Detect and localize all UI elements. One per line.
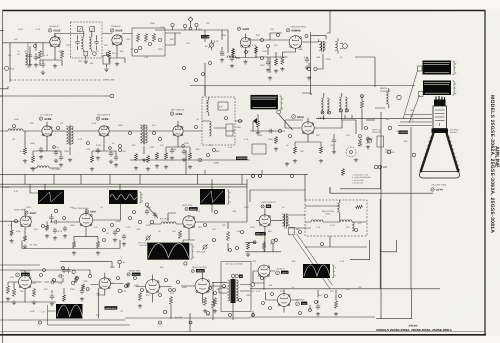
svg-text:6SN7GT: 6SN7GT [22,273,30,276]
svg-text:100K: 100K [298,48,303,51]
wire damper bottom [125,313,250,332]
T1 ground leads [84,52,86,59]
bus tick marks [25,170,262,184]
row1 bottom rail [190,85,415,87]
wire vert link [209,179,247,251]
svg-text:AGC: AGC [260,64,265,67]
svg-text:22K: 22K [256,34,260,37]
bracket W5 [139,192,142,203]
svg-text:5V4G: 5V4G [302,302,307,305]
vert lin chip [255,232,266,235]
svg-text:8.2K: 8.2K [14,190,19,193]
component value annotations [8,22,408,317]
terminals IF strip [87,142,90,145]
volume pot [209,43,213,47]
svg-text:B+ 140V: B+ 140V [52,168,61,171]
video det box [252,144,266,154]
oscillogram photo W2 [423,81,451,96]
svg-text:FOCUS: FOCUS [385,149,393,152]
svg-text:470K: 470K [18,28,23,31]
oscillogram photo W8 [56,304,83,319]
svg-text:VERT LIN: VERT LIN [256,233,265,236]
svg-text:YOKE: YOKE [325,213,331,216]
svg-text:PICTURE TUBE: PICTURE TUBE [432,184,447,187]
terminals damper [262,302,265,305]
grounds row4 left [6,297,10,301]
row1 V3 extra caps [230,56,234,62]
svg-text:270K: 270K [96,144,101,147]
svg-text:VERT OUTPUT: VERT OUTPUT [262,201,277,204]
V3 network wires [233,34,257,58]
svg-text:68K: 68K [196,148,200,151]
tube V8 audio amp [302,122,314,134]
svg-text:150K: 150K [182,286,187,289]
dashed datum line [10,79,101,81]
V5 cathode network [25,122,61,155]
flag test point [253,118,257,124]
resistor R15 [358,138,361,147]
terminals sync top [252,175,255,178]
takeoff box trimmer [226,124,233,136]
left vertical trunk [0,95,3,97]
svg-text:6AU6: 6AU6 [54,30,61,33]
oscillogram photo W9 [303,264,330,278]
B plus terminal V4 [314,67,317,70]
svg-text:270K: 270K [146,224,151,227]
tube V11 vert osc [183,216,195,228]
terminal cluster row1 [138,46,141,49]
wire long y120 to width [366,119,375,121]
tube V3 6AV6 detector [241,38,251,48]
IF transformer T1 dashed can [71,22,103,58]
tube V1 6AU6 sound IF [50,37,60,47]
svg-text:4.7K: 4.7K [256,290,261,293]
svg-text:150K: 150K [26,206,31,209]
svg-text:8.2K: 8.2K [20,150,25,153]
svg-text:470K: 470K [16,230,21,233]
svg-text:1.5K: 1.5K [60,266,65,269]
svg-text:2.2K: 2.2K [214,40,219,43]
CRT faceplate [420,172,460,179]
svg-text:22K: 22K [330,290,334,293]
svg-text:AIRLINE: AIRLINE [408,324,418,327]
row2 video det parts [256,120,259,128]
row3 sync mid extra [113,230,117,236]
horizontal discriminator caps [62,267,66,273]
takeoff wires [184,121,243,131]
bracket W1 [453,61,456,75]
wire extra verticals [45,30,330,200]
svg-text:150K: 150K [262,50,267,53]
dashed circle speaker jack [346,147,356,157]
diagonal leads to photos W1 [403,71,418,120]
svg-text:6CB6: 6CB6 [102,118,109,121]
resistor R30 [6,285,9,294]
wire y290 long [250,288,440,290]
grounds video right [285,162,289,166]
svg-text:47K: 47K [94,226,98,229]
top border line [3,10,486,12]
svg-text:47K: 47K [14,38,18,41]
svg-text:8.2K: 8.2K [92,122,97,125]
ground V3 [243,60,247,64]
svg-text:1. VOLTAGES +-10%: 1. VOLTAGES +-10% [352,174,369,177]
svg-text:DEFLECTION: DEFLECTION [322,210,335,213]
svg-text:33K: 33K [96,314,100,317]
svg-text:22K: 22K [316,134,320,137]
terminals V15 [134,277,137,280]
row2 bottom bus [130,86,250,174]
svg-text:270K: 270K [268,138,273,141]
svg-text:1.5K: 1.5K [236,230,241,233]
extra terminal circles texture [13,34,358,304]
resistor R36 [203,297,206,306]
svg-text:56K: 56K [198,28,202,31]
bottom border line [0,334,486,336]
yoke coil LV2 [340,220,352,222]
svg-text:CONTROL: CONTROL [380,90,391,93]
svg-text:6CB6: 6CB6 [45,118,52,121]
svg-text:3. WITH VTVM: 3. WITH VTVM [352,179,364,182]
svg-text:VIDEO OUTPUT: VIDEO OUTPUT [291,25,307,28]
svg-text:CONTROL: CONTROL [139,244,148,247]
tube V16 horiz output [195,279,210,294]
svg-text:68K: 68K [160,266,164,269]
focus box [377,136,384,147]
svg-text:SOUND IF: SOUND IF [111,25,121,28]
tube V12 vert output [259,215,271,227]
resistors under bus row2 [134,153,137,161]
oscillogram photo W4 [38,190,64,204]
antenna terminal [5,66,9,70]
resistor R33 [74,276,77,283]
picture tube type [431,188,434,191]
photo W1 terminal box [418,66,423,71]
svg-text:HORIZ AFC: HORIZ AFC [20,270,32,273]
resistor R24 [178,230,181,239]
resistor R27 [246,242,249,250]
svg-text:33K: 33K [30,122,34,125]
V10 network [66,208,98,240]
terminals vert right [204,224,207,227]
T1 bottom terminal [93,52,97,56]
svg-text:22K: 22K [112,52,116,55]
svg-text:470K: 470K [220,54,225,57]
svg-text:330K: 330K [110,266,115,269]
svg-text:56K: 56K [404,140,408,143]
svg-text:1B3GT: 1B3GT [282,271,289,274]
svg-text:33K: 33K [34,228,38,231]
resistor legend [341,168,344,176]
tube V15 horiz osc2 [146,280,160,294]
svg-text:33K: 33K [8,54,12,57]
svg-text:HIGH VOLT ASSEMBLY: HIGH VOLT ASSEMBLY [225,263,244,266]
yoke resistor [355,205,363,208]
svg-text:56K: 56K [292,260,296,263]
svg-text:6AV6: 6AV6 [297,115,304,119]
svg-text:SYNC PHASE INV: SYNC PHASE INV [72,207,89,210]
bracket W9 [332,265,335,278]
svg-text:100K: 100K [36,56,41,59]
V12 network [256,209,282,252]
sound IF can coils [321,98,323,113]
resistor R5 [144,33,147,42]
svg-text:10K: 10K [10,276,14,279]
tube V14 horiz osc [99,278,110,289]
svg-text:47K: 47K [70,206,74,209]
wire y251 vert [245,244,281,252]
svg-text:8.2K: 8.2K [206,314,211,317]
svg-text:GRN: GRN [410,109,415,112]
resistor R34 [138,292,141,301]
terminal V7 out [195,126,198,129]
svg-text:6BQ6GT: 6BQ6GT [197,270,205,273]
tube V6 6CB6 2nd video IF [99,126,109,136]
CRT ion trap band [432,129,449,134]
svg-text:33K: 33K [346,226,350,229]
label V8 [292,115,296,119]
flyback cage box [221,262,251,312]
svg-text:6CB6: 6CB6 [176,113,183,116]
flyback transformer T6 core [231,279,236,303]
svg-text:2ND VIDEO IF: 2ND VIDEO IF [97,114,111,117]
wire row1 right drop [355,57,375,87]
svg-text:330K: 330K [70,288,75,291]
yoke wires [295,200,367,228]
CRT feed wires [316,108,432,126]
svg-text:4.7K: 4.7K [78,138,83,141]
volume control chip [201,35,209,38]
row4 damper extra [316,304,320,310]
svg-text:4.7K: 4.7K [126,226,131,229]
svg-text:330K: 330K [184,142,189,145]
svg-text:100K: 100K [236,126,241,129]
resistor R3 box network [132,28,165,56]
svg-text:100K: 100K [64,150,69,153]
oscillogram photo W1 [423,61,452,75]
svg-text:150K: 150K [118,124,123,127]
capacitor C8 [53,220,59,224]
svg-text:1.5K: 1.5K [172,148,177,151]
T6 left winding [228,280,230,301]
yoke coil LH2 [352,222,354,231]
tube V5 6CB6 1st video IF [42,126,52,136]
V7 network [166,121,190,152]
svg-text:VOLUME: VOLUME [202,36,210,39]
svg-text:SYNC SEP: SYNC SEP [14,209,25,212]
svg-text:1.5K: 1.5K [358,144,363,147]
svg-text:10K: 10K [318,294,322,297]
svg-text:330K: 330K [250,226,255,229]
bus wire y265 [0,222,40,343]
svg-text:270K: 270K [214,162,220,165]
svg-text:CONTROL: CONTROL [372,131,381,134]
V2 cathode parts [109,45,125,63]
svg-text:470K: 470K [14,118,19,121]
V18 leads [266,290,299,313]
svg-text:MAGNET: MAGNET [450,131,459,134]
yoke cable diagonal 2 [297,234,333,286]
sound takeoff dashed box [202,97,235,145]
vert output transformer T5 [282,214,284,226]
focus terminals [388,126,392,130]
V9 network [0,209,56,235]
vert osc sawtooth coil [161,222,176,224]
svg-text:8.2K: 8.2K [170,292,175,295]
trap adjust box [103,56,110,65]
wire vert bottom [245,236,367,247]
svg-text:150K: 150K [70,224,75,227]
svg-text:470K: 470K [330,224,335,227]
resistor R25 [226,231,229,241]
svg-text:HV RECT: HV RECT [276,268,286,271]
svg-text:WIDTH: WIDTH [380,87,388,90]
svg-text:270K: 270K [66,44,71,47]
coil label leads [168,213,176,221]
resistor R6 [152,33,155,42]
B+ feed row1 [327,11,330,33]
row2 stage1 extra parts [39,147,43,153]
bus wire y270 [0,270,90,275]
tube V4 6AQ5 audio output [289,36,302,49]
height control chip [399,131,408,134]
CRT bell right leg [447,133,459,172]
svg-text:10K: 10K [222,34,226,37]
svg-text:270K: 270K [326,58,331,61]
terminals video right [279,130,282,133]
vertical feed x10 [9,43,11,82]
svg-text:56K: 56K [110,282,114,285]
wire y261 row4 [60,262,120,268]
capacitor C1 [28,53,32,59]
svg-text:SOUND IF: SOUND IF [49,25,59,28]
legend terminals [374,165,378,169]
resistor R10 [31,155,34,163]
oscillogram photo W7 [147,243,189,260]
resistor R31 [12,288,15,297]
ground AGC [307,76,311,80]
takeoff coil L3 [206,100,208,112]
deflection yoke dashed box [305,200,367,236]
T1 secondary coil [89,37,91,49]
svg-text:68K: 68K [84,280,88,283]
svg-text:10K: 10K [172,230,176,233]
svg-text:470K: 470K [30,310,35,313]
takeoff box 4.5MC [218,102,228,110]
wire step box right [376,289,412,319]
yoke coil LV1 [311,220,323,222]
terminals V14 [118,260,121,263]
terminal row2 mid [199,159,202,162]
row4 left extra [50,294,54,300]
V17 leads [253,271,275,290]
diagonal leads to photos W2 [409,95,420,123]
T1 trimmer squares [77,27,82,32]
svg-text:270K: 270K [280,290,285,293]
oscillogram photo W6 [200,189,225,205]
sound IF can 2 [339,97,341,112]
IF transformer T3 [52,130,66,132]
yoke plug box [289,227,295,235]
svg-text:8.2K: 8.2K [252,44,257,47]
svg-text:100K: 100K [246,294,251,297]
svg-text:CONTROL: CONTROL [399,131,409,134]
T6 right winding [236,280,238,301]
vert hold control [146,236,150,240]
terminal B+ boost [252,313,255,316]
video IF input coil L2 [8,129,23,131]
svg-text:2.2K: 2.2K [340,260,345,263]
svg-text:8.2K: 8.2K [58,230,63,233]
ground V1 cathode [53,64,57,68]
svg-text:68K: 68K [268,230,272,233]
row3 vert out extra [253,241,256,244]
terminal V3 plate [261,39,264,42]
tube V10 sync phase inv [79,213,92,226]
svg-text:56K: 56K [216,150,220,153]
row1 main wire [0,11,132,222]
row1 V4 extra parts [266,60,270,66]
svg-text:47K: 47K [274,44,278,47]
grounds V16 [203,309,207,313]
svg-text:330K: 330K [150,22,155,25]
AGC terminals [307,67,310,70]
svg-text:MODELS 25GSE-3062A, 25GSE-3063: MODELS 25GSE-3062A, 25GSE-3063A, 25GSE-3… [376,328,452,332]
svg-text:47K: 47K [152,124,156,127]
T1 side capacitors [75,39,79,45]
T6 lead wires [212,278,233,321]
svg-text:1.5K: 1.5K [144,56,149,59]
svg-text:2.2K: 2.2K [36,28,41,31]
CRT anode cap pins [436,96,445,100]
svg-text:22K: 22K [132,144,136,147]
capacitors vert osc [153,212,157,218]
svg-text:6SN7: 6SN7 [90,211,97,214]
svg-text:HORIZ HOLD: HORIZ HOLD [105,307,117,310]
terminals row4 left [40,274,43,277]
svg-text:1ST VIDEO IF: 1ST VIDEO IF [40,114,54,117]
wire row4 right bottom [250,305,375,317]
CRT bell left leg [421,133,434,172]
svg-text:6SN7GT: 6SN7GT [133,273,141,276]
svg-text:6SH7: 6SH7 [30,212,37,215]
CRT bell leg hatch left [420,136,432,170]
svg-text:10K: 10K [122,150,126,153]
bottom inner rule [0,331,485,333]
vertical trunk x410 [410,127,412,289]
terminals V10 [103,229,106,232]
svg-text:47K: 47K [206,290,210,293]
svg-text:2.2K: 2.2K [228,146,233,149]
resistor R11 [23,147,26,155]
svg-text:68K: 68K [120,50,124,53]
svg-text:10K: 10K [104,44,108,47]
row2 stage3 extra parts [170,148,174,154]
svg-text:1.5K: 1.5K [58,282,63,285]
CRT bell leg hatch right [448,136,460,170]
V14 network [91,273,124,319]
T1 bottom trimmer box [84,52,88,56]
tube V17 HV rect [258,265,270,277]
svg-text:CONTRAST: CONTRAST [237,157,249,160]
bracket W2 [453,81,456,95]
tube V9 sync separator [20,216,31,227]
IF transformer T4 [109,130,140,132]
contrast chip [236,157,248,160]
svg-text:68K: 68K [386,118,390,121]
svg-text:270K: 270K [244,206,249,209]
V13 network [8,271,41,303]
